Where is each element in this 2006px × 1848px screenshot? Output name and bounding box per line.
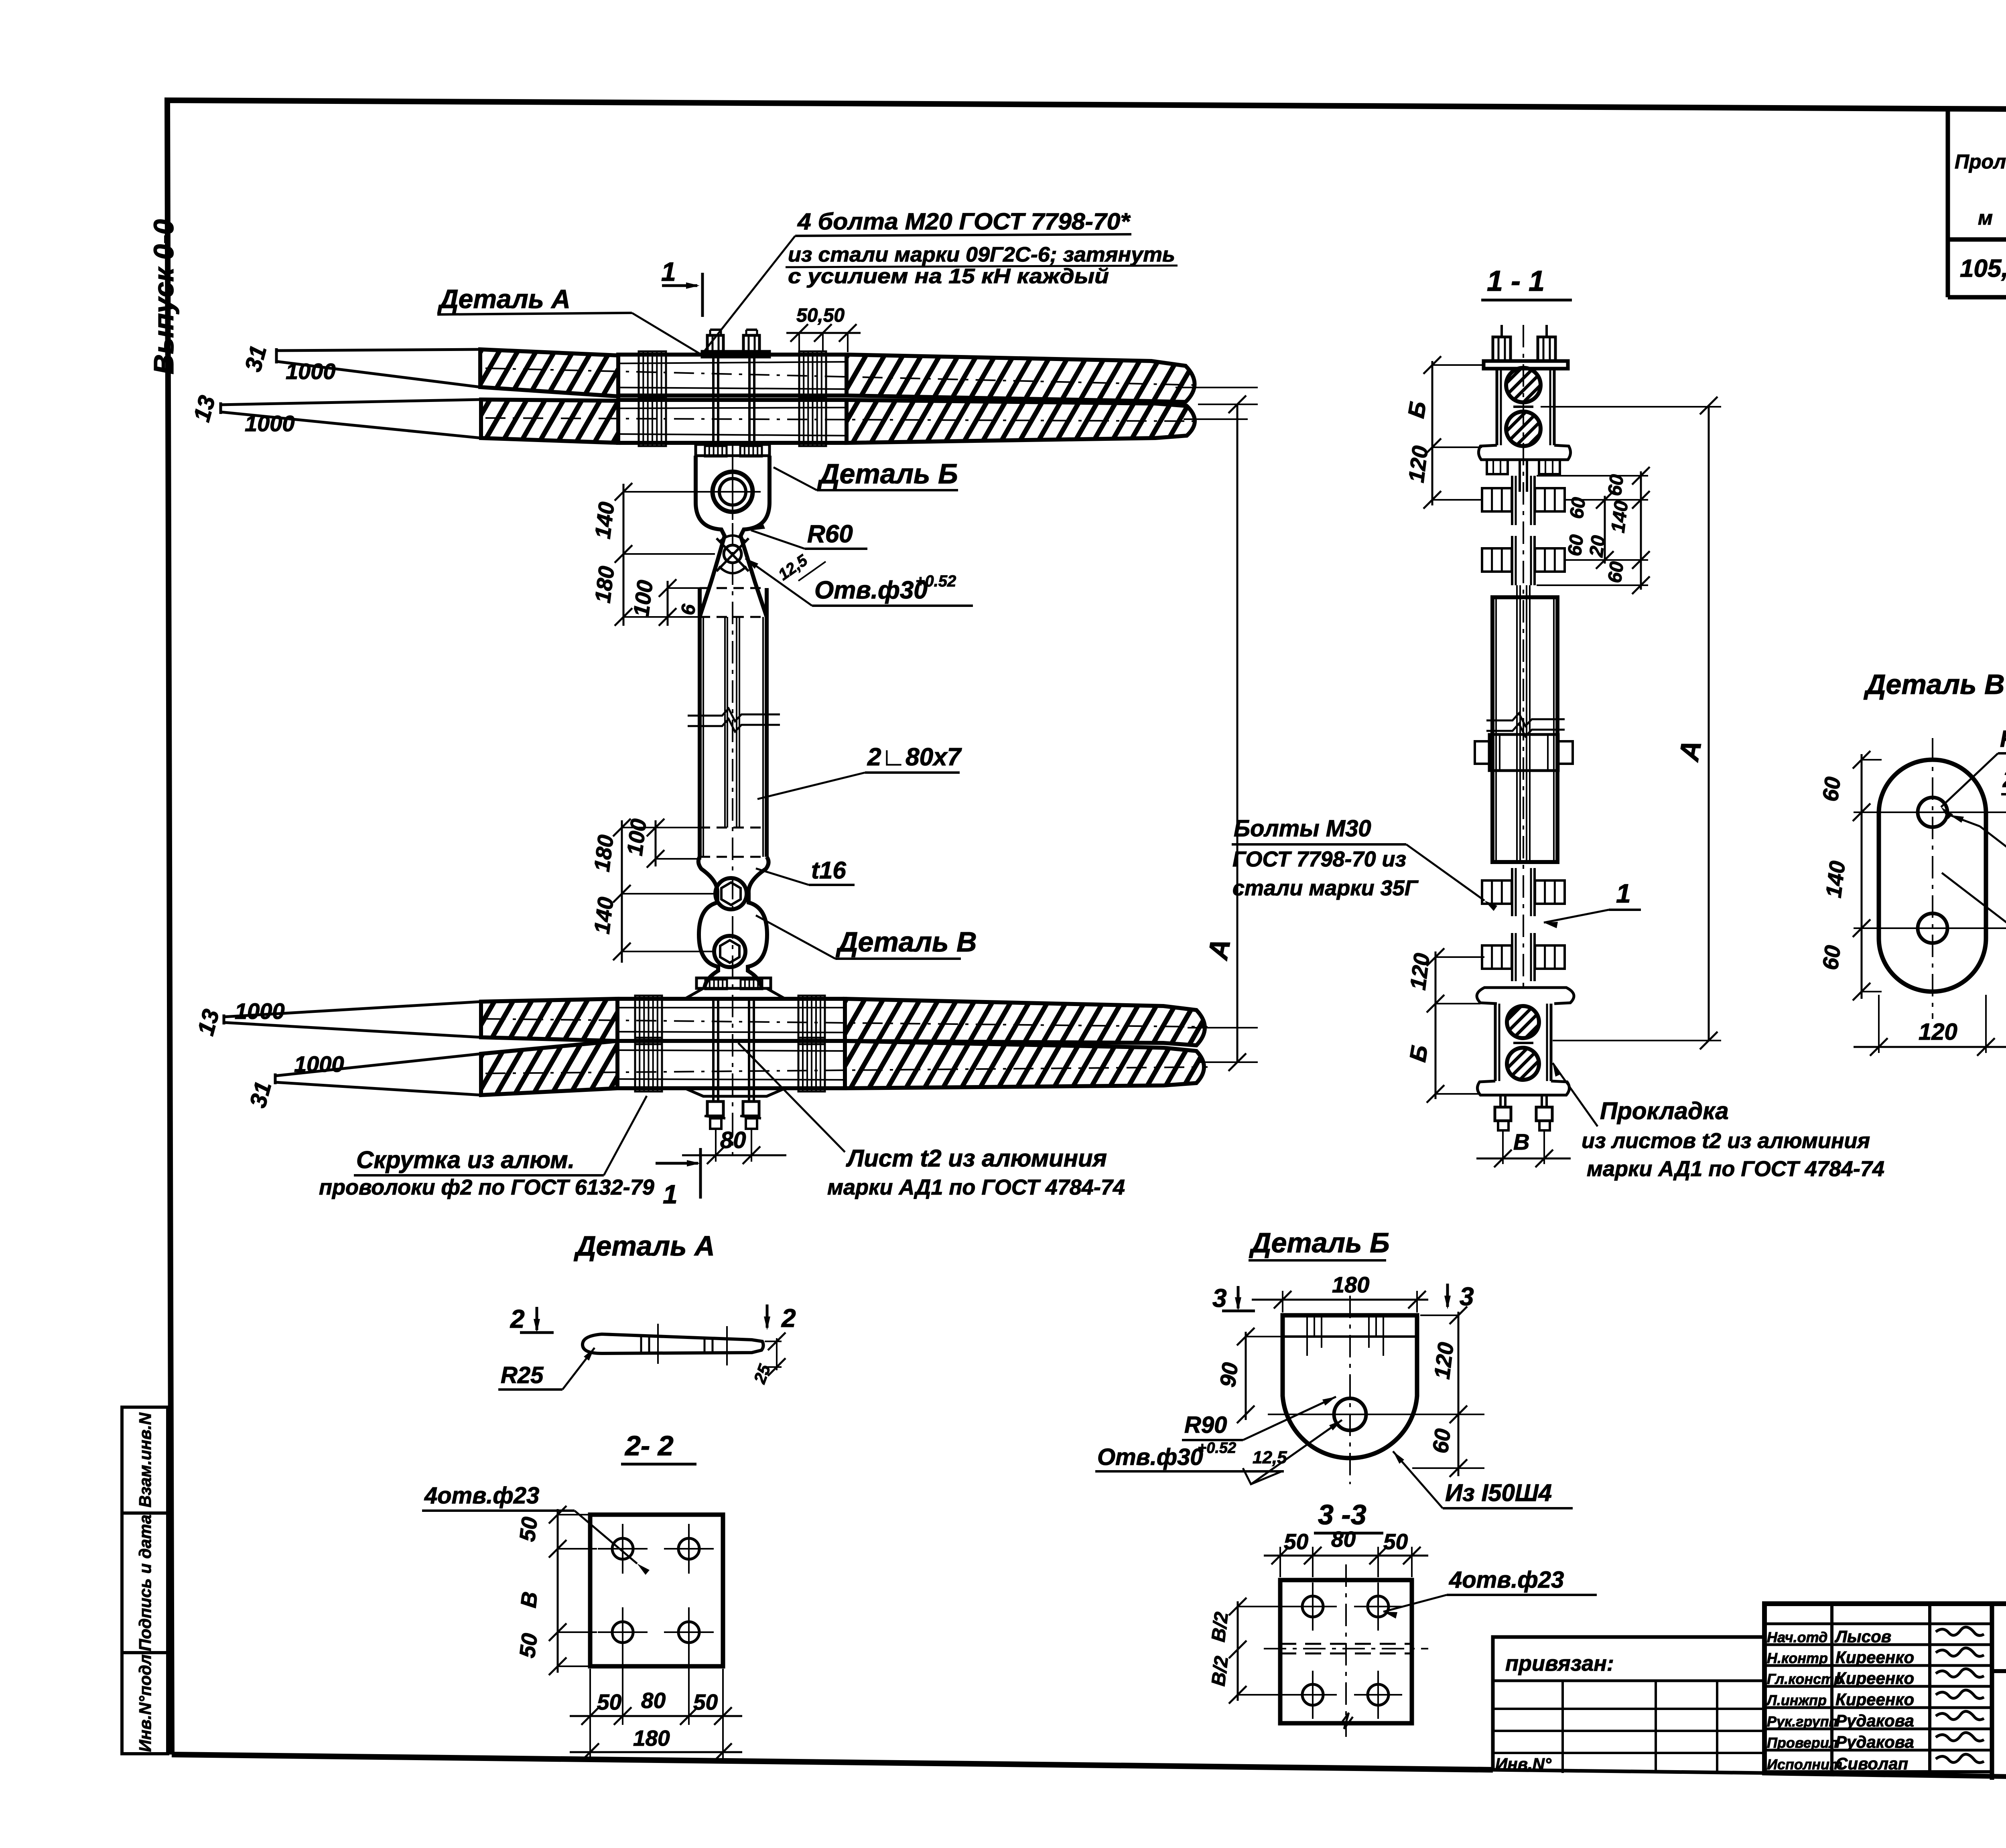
detail A strip divisions xyxy=(640,1336,642,1353)
detail Б hole xyxy=(1334,1398,1366,1430)
bottom cable 13 hatched body xyxy=(481,999,617,1041)
svg-text:Киреенко: Киреенко xyxy=(1835,1690,1914,1709)
bottom clamp lower band wire wraps xyxy=(635,1038,662,1091)
top clamp plate xyxy=(702,351,770,357)
bottom cable 31 hatched body xyxy=(481,1041,617,1095)
detail V dim 120 bottom xyxy=(1878,995,1880,1053)
section bolt heads top xyxy=(1493,337,1511,361)
section bolt group 1 xyxy=(1511,476,1513,525)
svg-text:140: 140 xyxy=(1821,859,1850,899)
parameters table xyxy=(1946,112,1950,297)
svg-text:марки АД1 по ГОСТ 4784-74: марки АД1 по ГОСТ 4784-74 xyxy=(827,1175,1125,1199)
svg-text:Нач.отд: Нач.отд xyxy=(1767,1629,1827,1645)
svg-text:50: 50 xyxy=(1383,1529,1408,1554)
svg-text:В/2: В/2 xyxy=(1208,1611,1232,1643)
svg-text:ГОСТ 7798-70 из: ГОСТ 7798-70 из xyxy=(1232,847,1406,871)
section clamp body xyxy=(1496,369,1498,445)
top cable right pair hatched xyxy=(847,355,1195,402)
section dim 120 top xyxy=(1431,447,1433,505)
svg-text:Отв.ф30: Отв.ф30 xyxy=(814,576,928,604)
top clamp bolt right xyxy=(748,357,751,443)
detail Б dim 90 left xyxy=(1245,1332,1247,1420)
svg-text:R60: R60 xyxy=(2000,726,2006,752)
page border bottom xyxy=(172,1755,1493,1770)
detail Б dim 180 top xyxy=(1282,1291,1283,1312)
svg-text:Пролет,: Пролет, xyxy=(1955,150,2006,173)
section marker 1 top xyxy=(662,284,697,287)
svg-text:12,5: 12,5 xyxy=(1253,1448,1287,1467)
section dim В bottom xyxy=(1502,1130,1504,1164)
section dim 120 bottom xyxy=(1435,951,1437,1009)
section right dim chain bolts xyxy=(1541,406,1721,408)
svg-text:50: 50 xyxy=(597,1690,622,1714)
svg-text:180: 180 xyxy=(589,833,618,873)
section bottom bolts xyxy=(1499,1095,1502,1107)
svg-text:Инв.N°: Инв.N° xyxy=(1495,1755,1552,1773)
detail V upper bolt xyxy=(715,878,747,909)
svg-text:140: 140 xyxy=(589,895,618,935)
svg-text:105,0: 105,0 xyxy=(1960,255,2006,282)
left stamp column xyxy=(122,1407,168,1754)
detail B bracket pin hole xyxy=(713,472,753,512)
detail Б flange hatch ticks xyxy=(1306,1315,1308,1337)
svg-text:120: 120 xyxy=(1919,1019,1957,1045)
svg-text:2: 2 xyxy=(510,1304,525,1333)
section bar break marks xyxy=(1486,713,1565,726)
svg-text:марки АД1 по ГОСТ 4784-74: марки АД1 по ГОСТ 4784-74 xyxy=(1587,1157,1884,1181)
detail V bottom serrated strip xyxy=(696,978,771,988)
top clamp upper band wire wraps xyxy=(639,351,666,399)
section bottom separator xyxy=(1513,1042,1533,1044)
svg-text:проволоки ф2 по ГОСТ 6132-79: проволоки ф2 по ГОСТ 6132-79 xyxy=(319,1175,654,1199)
section bottom clamp top plate xyxy=(1477,988,1574,1004)
detail A centerline crosses xyxy=(657,1324,659,1364)
section bolt group 4 xyxy=(1511,933,1513,981)
top clamp bolt left xyxy=(712,357,715,443)
detail V oval plate xyxy=(1879,760,1986,992)
section marker 1 bottom xyxy=(656,1162,698,1165)
signature table grid xyxy=(1830,1604,1833,1772)
top cable 31 taper xyxy=(276,349,480,351)
svg-text:Выпуск 0-0: Выпуск 0-0 xyxy=(148,219,179,374)
svg-text:м: м xyxy=(1978,207,1993,229)
section dim Б bottom xyxy=(1435,1004,1437,1099)
svg-text:Деталь А: Деталь А xyxy=(574,1230,715,1262)
svg-text:80: 80 xyxy=(1331,1527,1356,1552)
svg-text:Скрутка из алюм.: Скрутка из алюм. xyxy=(356,1146,575,1173)
svg-text:Рудакова: Рудакова xyxy=(1835,1711,1914,1730)
bottom cable 31 taper xyxy=(275,1054,481,1076)
document number cell xyxy=(1992,1669,2006,1673)
link bar centerline xyxy=(732,444,733,1155)
svg-text:2: 2 xyxy=(781,1304,796,1333)
section circle separator xyxy=(1513,406,1533,408)
detail Б dim 60 right xyxy=(1458,1414,1460,1476)
svg-text:140: 140 xyxy=(1607,499,1632,534)
svg-text:Гл.констр: Гл.констр xyxy=(1767,1671,1843,1687)
svg-text:3: 3 xyxy=(1212,1284,1227,1312)
svg-text:Исполнит: Исполнит xyxy=(1767,1756,1842,1773)
cable centerline extensions right xyxy=(1176,387,1258,388)
plate 2-2 bottom dim chain xyxy=(589,1669,591,1761)
bottom cable right pair hatched xyxy=(845,999,1205,1045)
svg-text:Отв.ф30: Отв.ф30 xyxy=(1097,1444,1203,1470)
svg-text:В: В xyxy=(1513,1129,1529,1154)
privyazan box xyxy=(1493,1637,1764,1773)
link bar top socket hidden lines xyxy=(700,587,767,589)
svg-text:Взам.инв.N: Взам.инв.N xyxy=(136,1412,154,1507)
svg-text:Л.инжпр: Л.инжпр xyxy=(1766,1692,1827,1708)
svg-text:50,50: 50,50 xyxy=(796,305,845,326)
detail B lower hole with R60 cross xyxy=(724,545,741,563)
plate 2-2 dim 180 xyxy=(570,1751,742,1753)
plate 3-3 center axis xyxy=(1345,1564,1347,1737)
svg-text:60: 60 xyxy=(1604,560,1628,584)
svg-text:В: В xyxy=(516,1590,542,1609)
section cable circle upper xyxy=(1506,368,1541,402)
svg-text:Киреенко: Киреенко xyxy=(1835,1669,1914,1688)
svg-text:R25: R25 xyxy=(501,1362,544,1388)
section web below clamp xyxy=(1519,460,1521,492)
svg-text:2отв.ф30: 2отв.ф30 xyxy=(2002,766,2006,792)
svg-text:Из I50Ш4: Из I50Ш4 xyxy=(1445,1479,1552,1506)
svg-text:60: 60 xyxy=(1564,534,1588,558)
svg-text:t16: t16 xyxy=(811,857,846,884)
plate 3-3 cable hidden lines xyxy=(1280,1643,1412,1645)
main view dim 100 top xyxy=(667,581,669,626)
svg-text:привязан:: привязан: xyxy=(1505,1651,1614,1676)
detail B bracket top serrated strip xyxy=(696,444,770,456)
detail V bracket body xyxy=(698,857,769,988)
title block outer box xyxy=(1764,1604,2006,1784)
svg-text:120: 120 xyxy=(1405,951,1434,991)
detail Б dim 120 right xyxy=(1458,1312,1460,1420)
svg-text:R90: R90 xyxy=(1184,1412,1227,1438)
svg-text:60: 60 xyxy=(1427,1427,1455,1455)
svg-text:Прокладка: Прокладка xyxy=(1600,1097,1729,1124)
svg-text:2∟80x7: 2∟80x7 xyxy=(867,743,962,771)
detail Б centerlines xyxy=(1349,1296,1351,1484)
svg-text:2- 2: 2- 2 xyxy=(624,1430,674,1461)
svg-text:1000: 1000 xyxy=(235,998,285,1024)
svg-text:Деталь А: Деталь А xyxy=(437,284,571,314)
svg-text:80: 80 xyxy=(720,1127,746,1153)
top clamp lower band wire wraps xyxy=(639,397,666,446)
detail V hole bottom xyxy=(1918,913,1947,943)
svg-text:из стали марки 09Г2С-6; затяну: из стали марки 09Г2С-6; затянуть xyxy=(788,243,1175,266)
svg-text:1 - 1: 1 - 1 xyxy=(1487,265,1545,297)
svg-text:180: 180 xyxy=(1332,1272,1369,1297)
detail A strip body xyxy=(583,1334,763,1353)
svg-text:1000: 1000 xyxy=(294,1051,344,1077)
plate 2-2 body xyxy=(590,1515,723,1666)
detail V hole top xyxy=(1918,797,1947,827)
svg-text:1000: 1000 xyxy=(245,411,295,436)
dimension A main view xyxy=(1236,404,1239,1062)
section dim A xyxy=(1708,406,1710,1041)
svg-text:1000: 1000 xyxy=(286,359,336,384)
svg-text:20: 20 xyxy=(1586,534,1609,559)
svg-text:из листов t2 из алюминия: из листов t2 из алюминия xyxy=(1582,1129,1870,1153)
detail B bracket dome xyxy=(696,456,770,617)
svg-text:Подпись и дата: Подпись и дата xyxy=(136,1515,154,1651)
svg-text:1: 1 xyxy=(661,257,676,286)
svg-text:180: 180 xyxy=(633,1726,670,1751)
svg-text:R60: R60 xyxy=(807,520,853,548)
plate 3-3 body xyxy=(1280,1580,1412,1723)
svg-text:60: 60 xyxy=(1566,496,1590,520)
detail A dim 25 xyxy=(765,1341,782,1342)
svg-text:120: 120 xyxy=(1403,444,1433,484)
section bolt studs top xyxy=(1500,325,1503,337)
top clamp lower band xyxy=(618,400,847,443)
svg-text:с усилием на 15 кН каждый: с усилием на 15 кН каждый xyxy=(788,265,1109,288)
detail Б flange inner line xyxy=(1283,1335,1417,1338)
section bottom clamp body xyxy=(1494,1004,1497,1081)
svg-text:стали марки 35Г: стали марки 35Г xyxy=(1232,876,1419,900)
section dim Б top xyxy=(1431,361,1433,451)
section cable circle lower xyxy=(1506,412,1541,446)
main view dimension chain bottom xyxy=(621,820,623,963)
section bar body xyxy=(1492,597,1557,862)
bottom clamp upper band wire wraps xyxy=(635,996,662,1044)
svg-text:1: 1 xyxy=(1616,878,1631,908)
section top plate xyxy=(1484,361,1568,369)
svg-text:100: 100 xyxy=(622,817,651,857)
detail V centerlines xyxy=(1932,738,1933,1019)
section bolt group 3 xyxy=(1511,868,1513,916)
section bottom cable circle upper xyxy=(1507,1006,1539,1038)
section clamp nuts below flange xyxy=(1487,460,1508,474)
bottom clamp upper band xyxy=(617,999,845,1041)
section bottom cable circle lower xyxy=(1507,1048,1539,1080)
dimension 80 bottom xyxy=(715,1129,717,1162)
svg-text:140: 140 xyxy=(590,500,619,540)
svg-text:Деталь В: Деталь В xyxy=(836,926,977,957)
top cable 13 taper xyxy=(221,400,481,405)
svg-text:1: 1 xyxy=(663,1179,678,1209)
main view dimension chain top xyxy=(623,484,625,626)
svg-text:60: 60 xyxy=(1604,473,1628,497)
svg-text:Лист t2 из алюминия: Лист t2 из алюминия xyxy=(846,1145,1107,1172)
svg-text:3 -3: 3 -3 xyxy=(1318,1499,1366,1530)
plate 3-3 left dims В/2 xyxy=(1237,1601,1239,1701)
link bar break marks xyxy=(688,708,780,721)
svg-text:Деталь Б: Деталь Б xyxy=(817,458,958,489)
svg-text:Н.контр: Н.контр xyxy=(1767,1650,1828,1666)
svg-text:60: 60 xyxy=(1817,944,1845,972)
top cable 13 hatched body xyxy=(481,400,618,443)
link bar outer edges xyxy=(698,588,702,857)
detail V lower bolt xyxy=(714,936,745,967)
svg-text:4отв.ф23: 4отв.ф23 xyxy=(1449,1567,1564,1593)
privyazan grid xyxy=(1561,1681,1564,1773)
svg-text:180: 180 xyxy=(590,564,619,604)
svg-text:100: 100 xyxy=(628,578,658,618)
link bar bottom socket hidden lines xyxy=(700,827,767,829)
svg-text:Деталь В: Деталь В xyxy=(1864,669,2005,700)
svg-text:Киреенко: Киреенко xyxy=(1835,1648,1914,1667)
svg-text:Болты М30: Болты М30 xyxy=(1234,815,1371,842)
top clamp upper band xyxy=(618,355,847,396)
svg-text:Деталь Б: Деталь Б xyxy=(1249,1227,1390,1258)
svg-text:120: 120 xyxy=(1429,1341,1458,1380)
svg-text:80: 80 xyxy=(641,1688,666,1713)
svg-text:+0.52: +0.52 xyxy=(1198,1440,1236,1456)
svg-text:90: 90 xyxy=(1215,1361,1243,1389)
bottom cable centerline extensions xyxy=(1188,1027,1258,1028)
bottom clamp top plate xyxy=(685,988,785,999)
bottom cable 13 taper xyxy=(224,1002,481,1017)
svg-text:60: 60 xyxy=(1817,775,1845,803)
svg-text:+0.52: +0.52 xyxy=(916,572,956,590)
section mid clamp xyxy=(1489,734,1558,771)
top cable 31 hatched body xyxy=(480,349,618,396)
svg-text:Проверил: Проверил xyxy=(1767,1734,1838,1751)
svg-text:50: 50 xyxy=(514,1632,542,1659)
svg-text:В/2: В/2 xyxy=(1208,1655,1232,1687)
plate 3-3 top dims xyxy=(1279,1547,1281,1577)
link bar inner angle strips xyxy=(724,617,726,828)
bottom clamp bolt right xyxy=(748,999,750,1101)
plate 2-2 holes xyxy=(612,1538,633,1559)
svg-text:Сиволап: Сиволап xyxy=(1835,1754,1908,1773)
bottom clamp bolt left xyxy=(712,999,715,1101)
plate 3-3 holes xyxy=(1302,1596,1323,1617)
svg-text:Инв.N°подл: Инв.N°подл xyxy=(136,1654,154,1752)
section bolt group 2 xyxy=(1511,536,1513,585)
svg-text:Рук.групп: Рук.групп xyxy=(1767,1713,1838,1730)
section bottom flange xyxy=(1477,1081,1569,1095)
svg-text:50: 50 xyxy=(514,1515,542,1543)
svg-text:50: 50 xyxy=(693,1690,718,1714)
detail V left dim chain xyxy=(1861,754,1863,999)
main view dim 100 bottom xyxy=(655,820,657,866)
section clamp bottom flange xyxy=(1478,445,1570,460)
svg-text:4 болта М20 ГОСТ 7798-70*: 4 болта М20 ГОСТ 7798-70* xyxy=(797,209,1131,235)
detail Б bracket outline xyxy=(1283,1315,1417,1458)
bottom clamp lower band xyxy=(617,1041,845,1088)
plate 2-2 left dim chain xyxy=(557,1509,559,1673)
svg-text:4отв.ф23: 4отв.ф23 xyxy=(424,1483,539,1509)
svg-text:Лысов: Лысов xyxy=(1834,1627,1891,1646)
signature squiggles xyxy=(1936,1627,1984,1635)
svg-text:50: 50 xyxy=(1284,1529,1309,1554)
bottom clamp bottom flange xyxy=(685,1088,785,1096)
svg-text:Рудакова: Рудакова xyxy=(1835,1732,1914,1751)
